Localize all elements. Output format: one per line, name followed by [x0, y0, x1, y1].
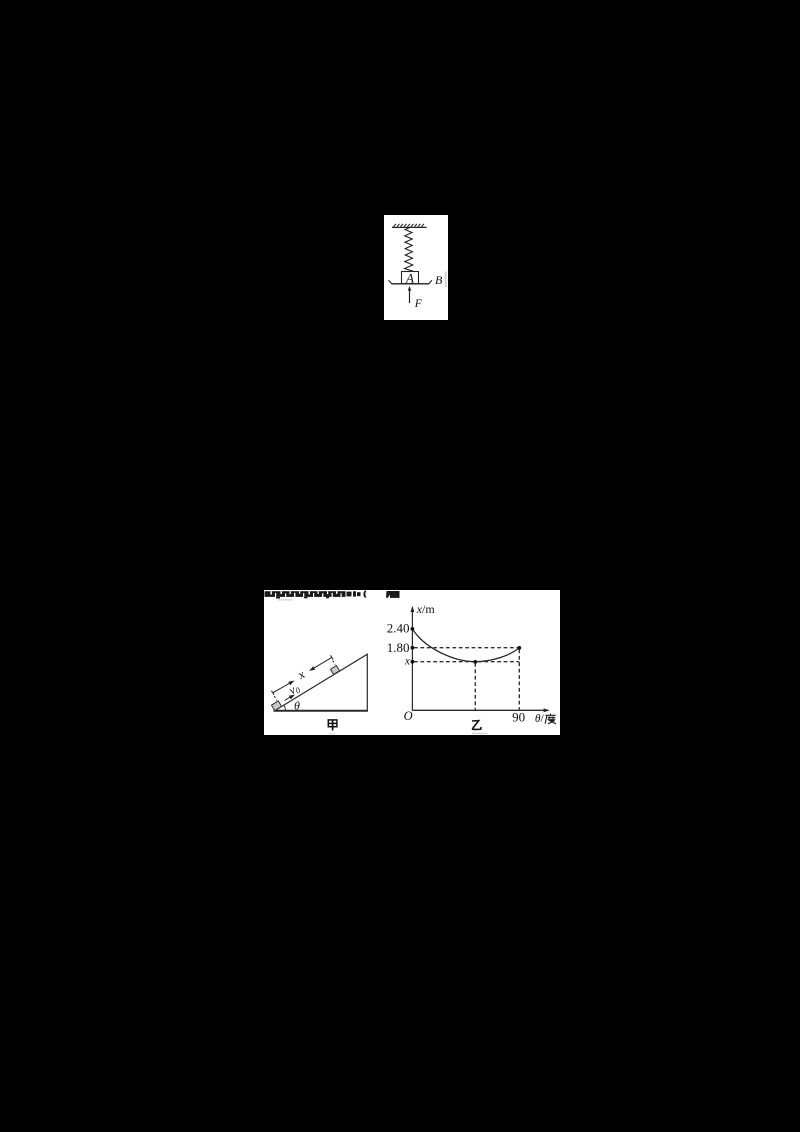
graph axes	[412, 610, 545, 711]
du glyph	[545, 714, 556, 724]
block A	[402, 272, 419, 284]
svg-text:x: x	[295, 667, 308, 683]
faint strip	[445, 272, 447, 288]
dashed guides	[414, 648, 519, 710]
spring	[405, 227, 414, 271]
underline jia	[328, 733, 336, 734]
faint smudge under text	[278, 599, 293, 600]
arrowhead F	[408, 286, 411, 291]
incline triangle	[274, 654, 369, 711]
svg-text:θ: θ	[294, 699, 300, 713]
v0 arrow	[285, 696, 292, 700]
data dots	[411, 627, 522, 664]
ceiling line	[392, 226, 427, 228]
figure panel 1: spring-block diagram	[384, 215, 448, 320]
curve	[412, 629, 519, 662]
svg-text:x: x	[404, 656, 411, 668]
svg-text:B: B	[435, 273, 443, 287]
force arrow F	[409, 290, 411, 304]
svg-text:A: A	[405, 271, 414, 286]
angle arc	[284, 705, 286, 710]
svg-text:F: F	[414, 298, 423, 310]
clipped text row	[265, 591, 400, 599]
ceiling hatch	[394, 224, 425, 227]
svg-text:2.40: 2.40	[387, 621, 410, 636]
lower block	[271, 701, 281, 711]
svg-text:1.80: 1.80	[387, 640, 410, 655]
figure panel 2: incline (jia) + graph (yi)	[264, 590, 560, 735]
label jia	[328, 720, 337, 731]
upper block	[330, 666, 339, 675]
platform B	[392, 283, 430, 285]
svg-text:90: 90	[512, 710, 525, 725]
svg-text:O: O	[404, 709, 413, 723]
dimension line x	[271, 655, 335, 700]
label yi	[472, 721, 481, 730]
label v0	[286, 680, 302, 698]
svg-text:θ/: θ/	[535, 713, 545, 725]
underline yi	[472, 733, 488, 734]
svg-text:x/m: x/m	[416, 602, 436, 616]
